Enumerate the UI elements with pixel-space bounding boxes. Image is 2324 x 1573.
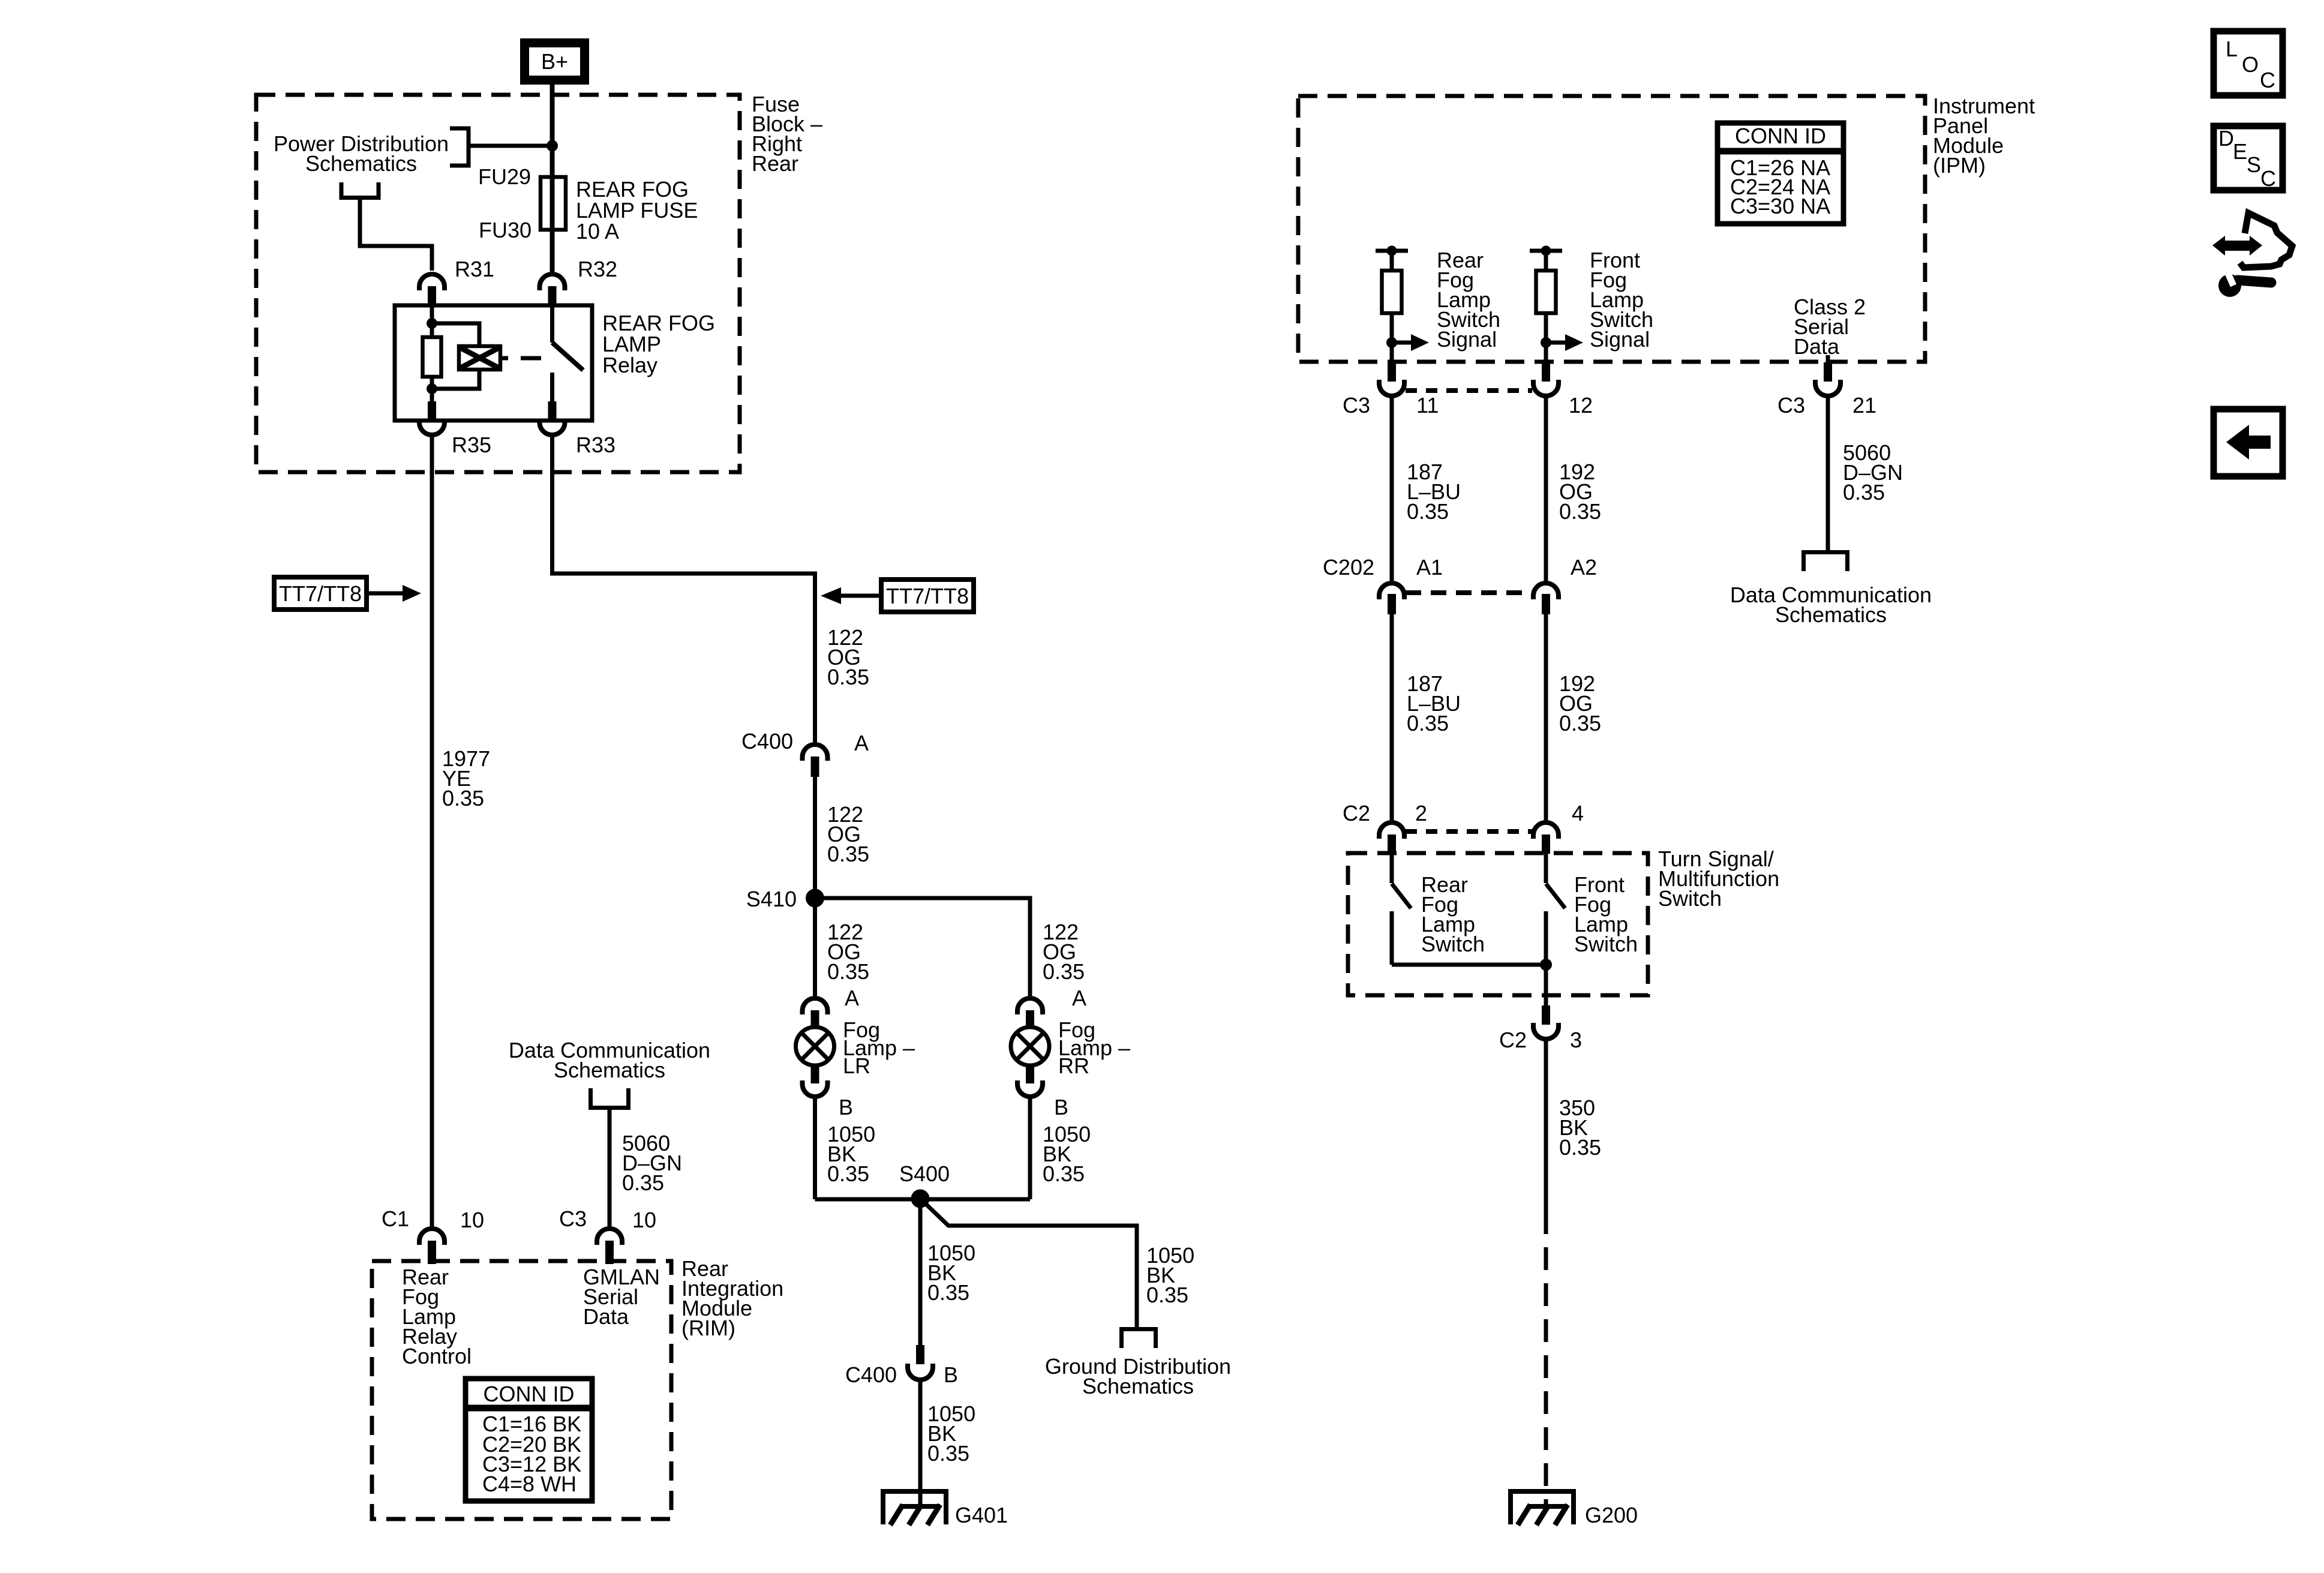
connector C400 cavity A	[741, 729, 869, 777]
connector terminal A fog lamp RR	[1017, 986, 1086, 1028]
wire front resistor to node	[1544, 313, 1548, 362]
label Rear Integration Module (RIM)	[681, 1256, 783, 1340]
arrow front fog lamp switch signal	[1546, 341, 1565, 345]
svg-text:C400: C400	[741, 729, 793, 754]
svg-text:Signal: Signal	[1590, 327, 1650, 352]
svg-text:C3: C3	[1777, 393, 1805, 418]
label circuit 192 OG 0.35 upper	[1559, 460, 1601, 524]
fuse FU29/FU30 REAR FOG LAMP FUSE 10A	[541, 177, 566, 230]
arrow TT7/TT8 to wire 1977	[367, 592, 404, 596]
junction rear signal node	[1386, 337, 1397, 348]
svg-text:0.35: 0.35	[1559, 1135, 1601, 1160]
svg-text:Switch: Switch	[1658, 886, 1722, 911]
svg-text:3: 3	[1570, 1028, 1582, 1052]
svg-text:G200: G200	[1585, 1503, 1638, 1527]
label GMLAN Serial Data	[583, 1265, 660, 1329]
connector C3 pin 12	[1533, 362, 1593, 418]
label Fuse Block Right Rear	[752, 92, 822, 176]
wire C3-12 to C202-A2 (192 OG)	[1544, 397, 1548, 581]
connector C2 pin 2	[1343, 801, 1427, 854]
svg-text:CONN ID: CONN ID	[1735, 124, 1826, 148]
label Ground Distribution Schematics	[1045, 1354, 1231, 1398]
dashed tie C2 connectors	[1406, 829, 1532, 834]
svg-text:B: B	[839, 1095, 853, 1119]
svg-text:R31: R31	[455, 257, 494, 281]
dashed wire continuation to G200	[1544, 1211, 1548, 1506]
svg-text:21: 21	[1852, 393, 1876, 418]
label Power Distribution Schematics	[274, 131, 449, 176]
svg-text:0.35: 0.35	[1559, 499, 1601, 524]
svg-text:0.35: 0.35	[1407, 499, 1449, 524]
label circuit 1050 BK 0.35 to C400 B	[927, 1241, 975, 1305]
svg-text:(IPM): (IPM)	[1933, 153, 1986, 178]
junction relay top	[427, 318, 437, 329]
fog lamp LR	[796, 1017, 915, 1078]
connector C2 pin 3	[1499, 1005, 1582, 1052]
relay box REAR FOG LAMP Relay	[395, 305, 592, 421]
svg-text:0.35: 0.35	[827, 1161, 869, 1186]
svg-text:C400: C400	[845, 1362, 897, 1387]
connector terminal A fog lamp LR	[803, 986, 860, 1028]
relay switch blade	[553, 343, 584, 370]
label Data Communication Schematics right	[1730, 583, 1932, 627]
svg-text:11: 11	[1416, 393, 1439, 418]
connector C202 pin A1	[1323, 555, 1443, 614]
svg-text:C3=30 NA: C3=30 NA	[1730, 194, 1830, 218]
wire C2-3 down (350 BK)	[1544, 1040, 1548, 1211]
connector C2 pin 4	[1533, 801, 1584, 854]
label circuit 122 OG 0.35 above C400	[827, 625, 869, 689]
svg-text:A2: A2	[1571, 555, 1597, 580]
svg-text:C4=8 WH: C4=8 WH	[482, 1472, 577, 1496]
rear fog lamp switch lower contact	[1390, 911, 1394, 965]
svg-text:FU30: FU30	[479, 218, 532, 242]
connector R33	[548, 401, 557, 421]
bracket under Power Distribution Schematics	[340, 182, 381, 198]
rear fog lamp switch blade	[1392, 884, 1411, 908]
label Data Communication Schematics left	[509, 1038, 710, 1082]
wire data comm bracket to C3 pin 10 (circuit 5060 D-GN)	[608, 1107, 612, 1226]
bracket to Ground Distribution Schematics	[1119, 1329, 1158, 1349]
svg-text:D: D	[2218, 126, 2234, 151]
wire bracket down to R31	[360, 200, 432, 271]
wire S400 to ground distribution	[920, 1199, 1137, 1327]
wire lamp LR to ground rail	[813, 1098, 817, 1199]
svg-text:0.35: 0.35	[827, 842, 869, 866]
wire C3-21 to data comm bracket (5060 D-GN)	[1826, 397, 1830, 552]
label circuit 122 OG 0.35 right branch	[1043, 920, 1085, 984]
svg-text:R32: R32	[578, 257, 617, 281]
label Rear Fog Lamp Switch Signal	[1437, 248, 1500, 352]
svg-text:A: A	[1072, 986, 1086, 1010]
wire S410 to right fog lamp branch	[815, 898, 1031, 996]
junction front pullup	[1541, 246, 1551, 256]
junction rear pullup	[1387, 246, 1397, 256]
wire C202-A1 to C2-2 (187 L-BU)	[1390, 614, 1394, 820]
dashed tie C3 connectors	[1406, 388, 1532, 393]
resistor front fog pullup	[1536, 271, 1556, 313]
wire Class 2 serial data stub	[1826, 355, 1830, 364]
svg-text:C2: C2	[1499, 1028, 1527, 1052]
svg-text:R35: R35	[452, 433, 491, 457]
connector R35	[428, 401, 436, 421]
svg-text:Schematics: Schematics	[1082, 1374, 1194, 1398]
front fog lamp switch lower contact	[1544, 911, 1548, 965]
label Front Fog Lamp Switch Signal	[1590, 248, 1653, 352]
wire rear resistor to node	[1390, 313, 1394, 362]
label circuit 122 OG 0.35 below C400	[827, 802, 869, 866]
svg-text:Switch: Switch	[1421, 932, 1485, 956]
connector C3 pin 11	[1343, 362, 1439, 418]
wire S410 down to left fog lamp	[813, 898, 817, 996]
svg-text:Control: Control	[402, 1344, 472, 1368]
turn signal multifunction switch dashed box	[1348, 853, 1648, 995]
label circuit 187 L-BU 0.35 lower	[1407, 671, 1461, 736]
CONN ID table RIM	[466, 1379, 592, 1501]
connector R31	[419, 274, 445, 290]
svg-text:A: A	[854, 731, 869, 755]
svg-text:A: A	[845, 986, 859, 1010]
svg-text:B: B	[944, 1362, 958, 1387]
svg-text:B+: B+	[541, 49, 568, 74]
junction front signal node	[1541, 337, 1551, 348]
svg-text:10: 10	[460, 1208, 484, 1232]
svg-text:L: L	[2226, 37, 2238, 61]
ground G401	[881, 1491, 1008, 1527]
svg-text:10 A: 10 A	[576, 219, 619, 244]
label Front Fog Lamp Switch	[1574, 872, 1638, 956]
svg-text:B: B	[1054, 1095, 1068, 1119]
wire S400 to C400 B	[918, 1199, 923, 1345]
svg-text:C3: C3	[559, 1206, 587, 1231]
svg-text:2: 2	[1415, 801, 1427, 825]
switch common bus wire	[1392, 963, 1546, 967]
svg-text:Rear: Rear	[752, 151, 798, 176]
bracket under Data Communication Schematics left	[588, 1088, 630, 1108]
svg-text:S400: S400	[899, 1161, 950, 1186]
svg-text:Schematics: Schematics	[305, 151, 417, 176]
fuse block dashed box	[256, 95, 740, 472]
svg-text:FU29: FU29	[478, 164, 531, 189]
svg-text:0.35: 0.35	[442, 786, 484, 810]
icon back-arrow box	[2214, 409, 2283, 476]
splice S400	[911, 1190, 930, 1208]
svg-text:LR: LR	[843, 1053, 870, 1078]
wire C400 A to S410	[813, 777, 817, 898]
wire B+ to fuse FU29/FU30 and relay R32	[550, 85, 555, 272]
label Turn Signal Multifunction Switch	[1658, 846, 1779, 911]
arrow rear fog lamp switch signal	[1392, 341, 1411, 345]
svg-text:0.35: 0.35	[827, 959, 869, 984]
fog lamp RR	[1011, 1017, 1130, 1078]
connector R32	[540, 274, 565, 290]
svg-text:4: 4	[1572, 801, 1584, 825]
svg-text:0.35: 0.35	[927, 1280, 969, 1305]
svg-text:C1: C1	[382, 1206, 409, 1231]
junction relay bottom	[427, 383, 437, 394]
relay coil to contact dashed link	[521, 356, 541, 361]
reference box TT7/TT8 left	[274, 577, 367, 610]
splice S410	[806, 889, 824, 908]
svg-text:10: 10	[632, 1208, 656, 1232]
front fog switch signal pullup rail	[1530, 249, 1562, 253]
svg-text:TT7/TT8: TT7/TT8	[886, 584, 969, 608]
svg-text:(RIM): (RIM)	[681, 1316, 735, 1340]
connector C202 pin A2	[1533, 555, 1597, 614]
label circuit 1050 BK 0.35 left lamp	[827, 1122, 875, 1186]
svg-text:G401: G401	[955, 1503, 1008, 1527]
svg-text:0.35: 0.35	[827, 665, 869, 689]
connector C3 pin 10 at RIM	[559, 1206, 656, 1264]
svg-text:Signal: Signal	[1437, 327, 1497, 352]
svg-text:Data: Data	[1794, 334, 1840, 359]
label circuit 187 L-BU 0.35 upper	[1407, 460, 1461, 524]
IPM dashed box	[1298, 96, 1925, 362]
icon connector-repair (head with double arrow and wrench)	[2212, 213, 2292, 297]
svg-text:A1: A1	[1416, 555, 1443, 580]
connector C1 pin 10 at RIM	[382, 1206, 484, 1264]
wire rail to front resistor	[1544, 251, 1548, 271]
svg-text:0.35: 0.35	[1043, 959, 1085, 984]
rear fog switch signal pullup rail	[1376, 249, 1408, 253]
wire rail to rear resistor	[1390, 251, 1394, 271]
wire bracket to B+ feed	[469, 144, 552, 148]
connector C3 pin 21	[1777, 362, 1876, 418]
relay coil branch wires	[432, 305, 479, 421]
label Rear Fog Lamp Switch	[1421, 872, 1485, 956]
svg-text:C2: C2	[1343, 801, 1370, 825]
label Instrument Panel Module (IPM)	[1933, 94, 2035, 178]
junction switch common	[1540, 959, 1552, 971]
wire R35 down to C1 pin 10 (circuit 1977 YE)	[430, 436, 434, 1226]
wire C202-A2 to C2-4 (192 OG)	[1544, 614, 1548, 820]
resistor rear fog pullup	[1382, 271, 1402, 313]
svg-text:Schematics: Schematics	[554, 1058, 665, 1082]
svg-text:Data: Data	[583, 1304, 629, 1329]
battery feed B+	[525, 43, 585, 80]
svg-text:C: C	[2260, 166, 2276, 191]
relay resistor	[423, 337, 442, 377]
RIM dashed box	[372, 1261, 671, 1519]
icon DESC box	[2214, 126, 2283, 191]
svg-text:S: S	[2247, 152, 2261, 177]
svg-text:C: C	[2260, 68, 2275, 92]
svg-text:C3: C3	[1343, 393, 1370, 418]
label circuit 5060 D-GN 0.35 right	[1843, 440, 1903, 505]
svg-text:CONN ID: CONN ID	[484, 1382, 575, 1406]
label circuit 350 BK 0.35	[1559, 1095, 1601, 1160]
label Rear Fog Lamp Relay Control	[402, 1265, 472, 1368]
relay switch lower contact	[550, 373, 554, 421]
svg-text:R33: R33	[576, 433, 615, 457]
svg-text:O: O	[2242, 52, 2259, 77]
dashed tie C202 connectors	[1406, 590, 1532, 595]
label circuit 1977 YE 0.35	[442, 746, 490, 810]
front fog lamp switch contact	[1544, 854, 1548, 883]
svg-text:12: 12	[1569, 393, 1593, 418]
svg-text:TT7/TT8: TT7/TT8	[279, 581, 362, 606]
label circuit 1050 BK 0.35 right lamp	[1043, 1122, 1091, 1186]
ground G200	[1508, 1491, 1638, 1527]
label circuit 192 OG 0.35 lower	[1559, 671, 1601, 736]
svg-text:Schematics: Schematics	[1775, 602, 1887, 627]
svg-text:0.35: 0.35	[1843, 480, 1885, 505]
wire lamp RR to ground rail	[1028, 1098, 1032, 1199]
rear fog lamp switch contact	[1390, 854, 1394, 883]
reference box TT7/TT8 right	[881, 580, 974, 612]
svg-text:0.35: 0.35	[1559, 711, 1601, 736]
ground rail wire	[815, 1197, 1031, 1202]
label circuit 122 OG 0.35 left branch	[827, 920, 869, 984]
relay switch contact	[550, 305, 554, 343]
arrow TT7/TT8 to wire 122	[841, 594, 881, 598]
icon LOC box	[2214, 31, 2283, 95]
junction at B+ feed	[547, 140, 558, 152]
connector terminal B fog lamp RR	[1017, 1064, 1068, 1119]
front fog lamp switch blade	[1546, 884, 1565, 908]
svg-text:Relay: Relay	[602, 353, 657, 377]
svg-text:0.35: 0.35	[927, 1441, 969, 1466]
svg-text:S410: S410	[746, 887, 797, 911]
svg-text:0.35: 0.35	[1407, 711, 1449, 736]
bracket to Data Communication Schematics right	[1801, 553, 1849, 572]
label circuit 1050 BK 0.35 to G401	[927, 1401, 975, 1466]
connector terminal B fog lamp LR	[803, 1064, 854, 1119]
svg-text:C202: C202	[1323, 555, 1374, 580]
wire C3-11 to C202-A1 (187 L-BU)	[1390, 397, 1394, 581]
svg-text:0.35: 0.35	[622, 1170, 664, 1195]
wire C400 B to G401	[918, 1381, 923, 1506]
label Class 2 Serial Data	[1794, 295, 1866, 359]
label circuit 1050 BK 0.35 to ground distribution	[1146, 1243, 1194, 1307]
svg-text:Switch: Switch	[1574, 932, 1638, 956]
svg-text:E: E	[2233, 139, 2247, 164]
wire common to C2 pin 3	[1544, 965, 1548, 1005]
CONN ID table IPM	[1718, 123, 1843, 224]
wire R33 down and across to circuit 122	[553, 436, 815, 742]
relay coil	[459, 346, 508, 370]
bracket to Power Distribution Schematics	[450, 128, 469, 166]
svg-text:0.35: 0.35	[1146, 1283, 1188, 1307]
svg-text:RR: RR	[1058, 1053, 1089, 1078]
label circuit 5060 D-GN 0.35 left	[622, 1131, 682, 1195]
svg-text:0.35: 0.35	[1043, 1161, 1085, 1186]
connector C400 cavity B	[845, 1345, 958, 1387]
